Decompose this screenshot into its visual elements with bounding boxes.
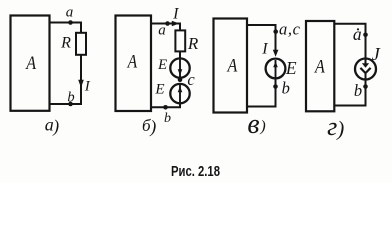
svg-text:): ) bbox=[336, 117, 344, 141]
node c (б) bbox=[178, 77, 183, 82]
svg-text:Рис. 2.18: Рис. 2.18 bbox=[171, 164, 220, 180]
svg-text:I: I bbox=[261, 41, 268, 58]
svg-text:A: A bbox=[226, 55, 238, 76]
svg-text:a,c: a,c bbox=[279, 20, 301, 39]
J double arrow down (г) bbox=[360, 59, 370, 81]
svg-text:A: A bbox=[126, 52, 137, 73]
wire: box to source (в) bbox=[247, 25, 276, 51]
svg-text:E: E bbox=[157, 57, 167, 73]
current arrow I (а) bbox=[78, 80, 84, 88]
wire: source to box (г) bbox=[334, 80, 365, 106]
wire: source to box (в) bbox=[247, 78, 276, 106]
svg-text:b: b bbox=[67, 89, 74, 105]
node b (б) bbox=[163, 105, 168, 110]
resistor R (а) bbox=[76, 33, 86, 55]
EMF source E1 circle (б) bbox=[170, 58, 189, 77]
svg-text:b: b bbox=[164, 111, 171, 126]
network box A (г) bbox=[306, 21, 334, 111]
wire: resistor to source E1 (б) bbox=[179, 51, 181, 58]
svg-text:R: R bbox=[187, 34, 199, 53]
svg-text:b: b bbox=[354, 81, 362, 100]
node a (г) bbox=[363, 33, 368, 38]
network box A (б) bbox=[116, 16, 152, 112]
wire: resistor bottom to node b and box (а) bbox=[50, 55, 82, 104]
svg-text:г: г bbox=[327, 112, 337, 141]
svg-text:A: A bbox=[313, 56, 325, 77]
svg-text:E: E bbox=[154, 82, 164, 98]
node b (в) bbox=[273, 84, 278, 89]
svg-text:): ) bbox=[149, 117, 156, 138]
node a (а) bbox=[68, 20, 73, 25]
current source J circle (г) bbox=[355, 59, 376, 80]
svg-text:a: a bbox=[353, 24, 362, 44]
svg-text:E: E bbox=[285, 58, 297, 78]
svg-text:R: R bbox=[60, 35, 71, 52]
svg-text:c: c bbox=[187, 70, 195, 89]
node a (б) bbox=[165, 21, 170, 26]
resistor R (б) bbox=[175, 30, 185, 51]
wire: source E2 to box (б) bbox=[151, 103, 180, 107]
svg-text:A: A bbox=[25, 53, 37, 74]
node b (г) bbox=[363, 84, 368, 89]
EMF source E circle (в) bbox=[266, 59, 286, 79]
svg-text:): ) bbox=[259, 118, 265, 135]
svg-text:a: a bbox=[66, 5, 74, 21]
dot accent above a (г) bbox=[357, 28, 359, 30]
node b (а) bbox=[68, 102, 73, 107]
network box A (в) bbox=[214, 19, 248, 113]
wire: box to resistor top (б) bbox=[151, 24, 180, 31]
current arrow I (б) bbox=[172, 21, 179, 27]
node a,c (в) bbox=[273, 29, 278, 34]
svg-text:в: в bbox=[247, 109, 259, 140]
E arrow up (в) bbox=[273, 60, 278, 78]
EMF source E2 circle (б) bbox=[170, 84, 189, 103]
svg-text:a: a bbox=[158, 22, 166, 38]
network box A (а) bbox=[11, 16, 50, 111]
wire: box to source (г) bbox=[334, 24, 365, 59]
current arrow I (в) bbox=[273, 50, 279, 57]
svg-text:J: J bbox=[372, 44, 381, 64]
E2 arrow up (б) bbox=[178, 85, 183, 103]
E1 arrow down (б) bbox=[178, 59, 183, 77]
wire: box to resistor top (а) bbox=[50, 23, 82, 34]
svg-text:b: b bbox=[282, 78, 290, 97]
svg-text:I: I bbox=[84, 79, 91, 95]
svg-text:I: I bbox=[172, 5, 179, 22]
svg-text:): ) bbox=[52, 116, 59, 136]
